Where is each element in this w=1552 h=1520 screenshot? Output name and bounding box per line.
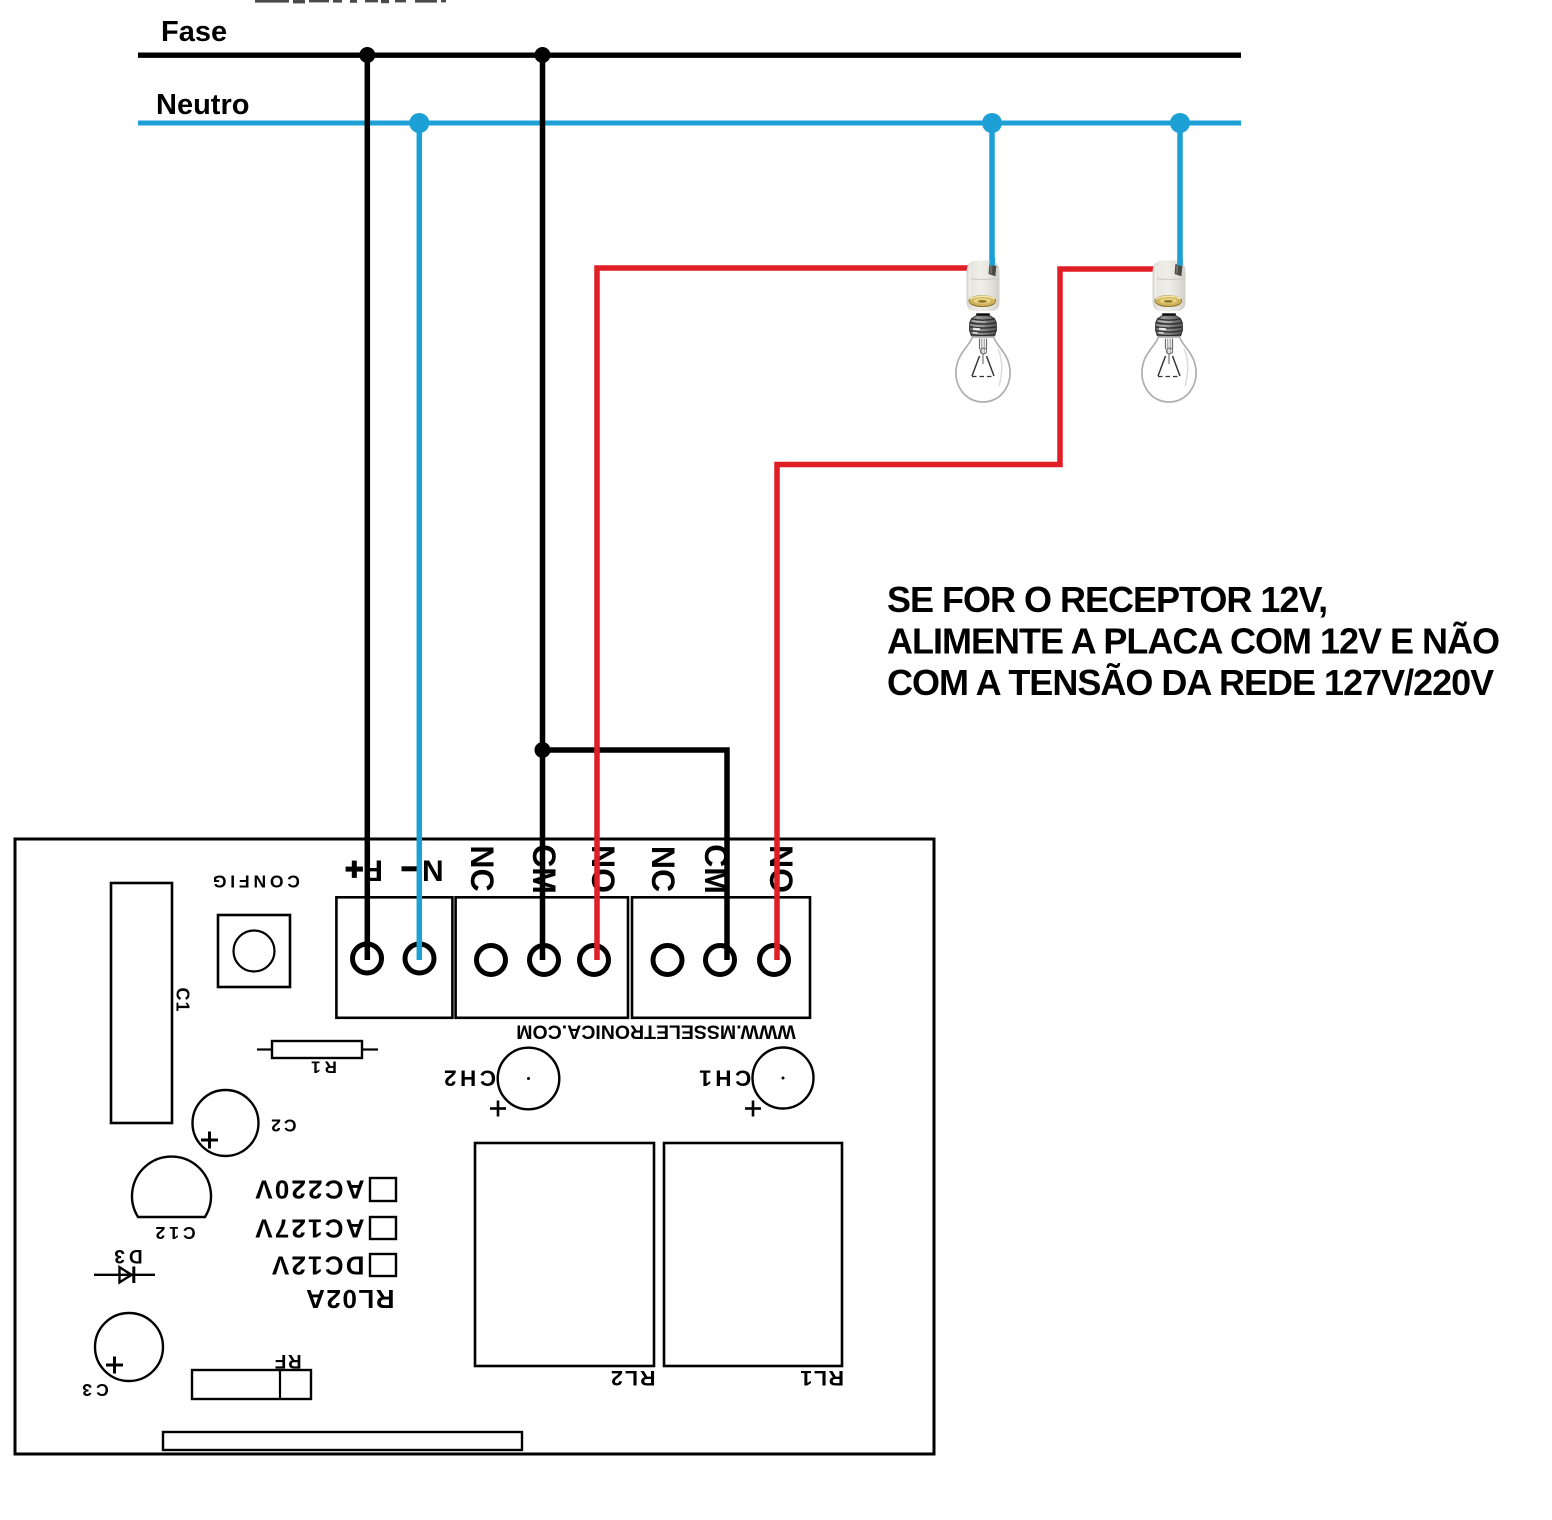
filament	[1158, 339, 1180, 377]
wire N- to Neutro	[417, 123, 423, 960]
bulb glass	[1142, 337, 1196, 402]
wire Neutro to lamp socket 1	[989, 123, 995, 270]
lamp 1 (socket + bulb)	[956, 257, 1010, 402]
svg-text:ALIMENTE A PLACA COM 12V E NÃO: ALIMENTE A PLACA COM 12V E NÃO	[887, 620, 1499, 662]
note text	[887, 579, 1499, 703]
voltage checkbox DC12V	[370, 1254, 396, 1276]
svg-text:CH1: CH1	[696, 1066, 752, 1091]
svg-text:SE FOR O RECEPTOR 12V,: SE FOR O RECEPTOR 12V,	[887, 579, 1327, 620]
svg-text:N: N	[422, 854, 444, 887]
wire entry slot	[1175, 264, 1183, 276]
svg-text:C1: C1	[173, 987, 193, 1012]
terminal N-	[405, 944, 434, 973]
capacitor C2	[193, 1090, 259, 1156]
junction Fase/CM	[535, 47, 551, 63]
svg-text:C12: C12	[152, 1223, 196, 1243]
voltage checkbox AC220V	[370, 1178, 396, 1201]
svg-text:Neutro: Neutro	[156, 89, 249, 121]
brass ring	[969, 296, 996, 307]
svg-text:RF: RF	[273, 1350, 301, 1371]
brass ring	[1155, 296, 1182, 307]
junction CM branch	[535, 742, 551, 758]
svg-text:R1: R1	[307, 1058, 337, 1077]
svg-text:NC: NC	[464, 845, 500, 891]
svg-text:COM A TENSÃO DA REDE 127V/220V: COM A TENSÃO DA REDE 127V/220V	[887, 661, 1494, 703]
wire Neutro bus	[138, 121, 1241, 126]
plus mark CH1	[745, 1107, 761, 1110]
terminal CM relay2	[530, 946, 559, 975]
terminal block NC/CM/NO relay2	[456, 897, 628, 1018]
capacitor C1 body	[111, 883, 172, 1123]
terminal screw holes	[353, 944, 789, 975]
junction Neutro/lamp2	[1170, 113, 1190, 133]
svg-text:C2: C2	[268, 1116, 296, 1136]
capacitor C3	[95, 1313, 163, 1381]
terminal NC relay1	[653, 946, 682, 975]
blue wire tail into slot	[989, 257, 995, 266]
diode D3	[94, 1274, 155, 1276]
terminal block NC/CM/NO relay1	[632, 897, 810, 1018]
junction Neutro/lamp1	[982, 113, 1002, 133]
resistor R1	[272, 1041, 362, 1058]
filament	[972, 339, 994, 377]
svg-text:D3: D3	[110, 1245, 142, 1266]
terminal NO relay1	[760, 946, 789, 975]
svg-text:NC: NC	[645, 846, 681, 892]
wire CM relay2 to Fase	[540, 55, 546, 960]
trimpot CH2	[498, 1048, 560, 1110]
RF module	[192, 1370, 311, 1399]
terminal block F+/N-	[336, 897, 452, 1018]
wire Fase bus	[138, 53, 1241, 58]
bulb screw cap	[1162, 313, 1176, 315]
svg-text:AC220V: AC220V	[253, 1175, 364, 1205]
voltage checkbox AC127V	[370, 1217, 396, 1239]
terminal NO relay2	[580, 946, 609, 975]
trimpot CH1 center dot	[782, 1077, 785, 1080]
junction Neutro/N-	[409, 113, 429, 133]
svg-text:CH2: CH2	[440, 1066, 496, 1091]
terminal NC relay2	[477, 946, 506, 975]
PCB outline	[15, 839, 934, 1454]
cropped title text remnant at top edge	[255, 0, 446, 3]
svg-text:WWW.MSSELETRONICA.COM: WWW.MSSELETRONICA.COM	[516, 1021, 795, 1043]
lamp 2 (socket + bulb)	[1142, 257, 1196, 402]
junction Fase/F+	[359, 47, 375, 63]
wire branch to CM relay1	[543, 750, 728, 960]
antenna strip	[163, 1432, 522, 1450]
wire F+ to Fase	[365, 55, 371, 960]
svg-text:DC12V: DC12V	[270, 1251, 365, 1281]
svg-text:NO: NO	[763, 845, 799, 893]
terminal F+	[353, 944, 382, 973]
pushbutton CONFIG	[218, 915, 290, 987]
blue wire tail into slot	[1177, 257, 1183, 266]
svg-text:RL2: RL2	[609, 1366, 656, 1390]
trimpot CH1	[753, 1048, 814, 1109]
terminal CM relay1	[706, 946, 735, 975]
bulb screw cap	[976, 313, 990, 315]
relay RL1	[664, 1143, 842, 1366]
relay RL2	[475, 1143, 654, 1366]
svg-text:NO: NO	[585, 845, 621, 893]
plus mark CH2	[490, 1107, 506, 1110]
svg-text:Fase: Fase	[161, 16, 227, 48]
wire entry slot	[989, 264, 997, 276]
svg-text:RL1: RL1	[799, 1366, 844, 1390]
bulb glass	[956, 337, 1010, 402]
wire NO relay2 to lamp 1	[597, 268, 970, 960]
svg-text:RL02A: RL02A	[305, 1284, 395, 1314]
lamp socket body	[967, 260, 1000, 311]
capacitor C12 dome	[132, 1157, 211, 1217]
trimpot CH2 center dot	[527, 1077, 530, 1080]
svg-text:CONFIG: CONFIG	[209, 872, 300, 892]
PCB silkscreen labels (board mounted upside-down)	[78, 844, 844, 1400]
wire Neutro to lamp socket 2	[1177, 123, 1183, 270]
svg-text:C3: C3	[78, 1380, 108, 1400]
wire NO relay1 to lamp 2	[777, 269, 1156, 960]
svg-text:AC127V: AC127V	[253, 1214, 364, 1244]
lamp socket body	[1153, 260, 1186, 311]
